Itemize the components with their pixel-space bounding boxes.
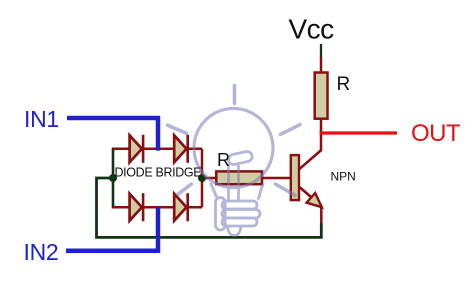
wire bridge bottom edge xyxy=(113,206,202,209)
svg-text:DIODE BRIDGE: DIODE BRIDGE xyxy=(115,166,202,180)
wire bridge top edge xyxy=(113,148,202,151)
diode D2 (bridge top-right) xyxy=(174,135,188,163)
bulb base finger 3 xyxy=(222,218,257,226)
ray lower-left xyxy=(178,184,191,194)
wire ground loop (green): left node to bottom to emitter xyxy=(97,178,322,237)
diode D3 (bridge bottom-left) xyxy=(130,193,144,221)
bulb stem line right xyxy=(237,166,240,200)
svg-text:Vcc: Vcc xyxy=(289,14,335,45)
bulb neck left xyxy=(211,184,217,198)
node left bridge junction (green dot) xyxy=(109,174,117,182)
diode D1 (bridge top-left) xyxy=(130,135,144,163)
transistor Q1 emitter arrow xyxy=(307,193,322,207)
transistor Q1 base bar xyxy=(291,155,299,200)
wire bridge right edge xyxy=(201,149,204,207)
svg-text:R: R xyxy=(337,74,351,95)
bulb glass xyxy=(194,109,273,188)
bulb neck right xyxy=(259,185,263,199)
bulb stem line left xyxy=(227,165,230,200)
svg-text:NPN: NPN xyxy=(331,170,356,184)
wire Vcc lead to resistor R1 (dark red) xyxy=(320,57,323,73)
wire emitter diagonal of Q1 xyxy=(299,186,315,199)
wire IN1 (blue) xyxy=(67,118,158,151)
wire base net: right node to transistor base xyxy=(202,177,291,180)
wire OUT net (bright red) xyxy=(320,131,397,134)
svg-text:OUT: OUT xyxy=(411,120,461,147)
bulb base tip xyxy=(228,227,242,236)
bulb base finger 2 xyxy=(222,210,260,219)
wire IN2 (blue) xyxy=(66,207,158,251)
ray lower-right xyxy=(275,184,295,195)
resistor R1 (vertical, collector load) xyxy=(315,73,328,119)
diode D4 (bridge bottom-right) xyxy=(174,193,188,221)
bulb shine capsule xyxy=(228,151,254,166)
wire Vcc lead (green upper segment) xyxy=(320,44,322,57)
wire emitter to ground loop (dark red segment) xyxy=(320,206,323,225)
wire collector diagonal of Q1 xyxy=(299,150,321,169)
svg-text:IN1: IN1 xyxy=(24,106,59,132)
wire bridge left edge (green) xyxy=(113,149,118,207)
ray top xyxy=(233,86,237,104)
svg-text:IN2: IN2 xyxy=(24,239,59,265)
ray upper-right xyxy=(281,125,301,135)
node right bridge junction (green dot) xyxy=(198,174,206,182)
ray upper-left xyxy=(168,125,187,133)
wire resistor R1 bottom to collector node xyxy=(320,118,323,151)
bulb base finger 1 xyxy=(222,201,257,209)
bulb base thumb capsule xyxy=(216,198,226,231)
watermark light bulb xyxy=(168,86,301,236)
svg-text:R: R xyxy=(217,150,230,170)
resistor R2 (horizontal, base) xyxy=(216,171,262,184)
